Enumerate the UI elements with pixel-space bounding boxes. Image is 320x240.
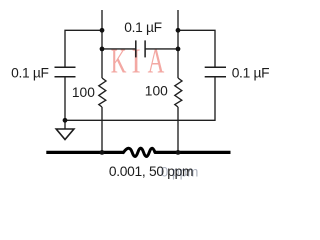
wire right branch below resistor [177, 107, 179, 152]
wire top right horizontal [178, 30, 215, 67]
shunt resistor 0.001 bus [46, 148, 230, 156]
capacitor C2 0.1uF middle [136, 40, 145, 57]
svg-text:0.1 µF: 0.1 µF [11, 66, 49, 81]
svg-text:100: 100 [72, 85, 95, 100]
node dot shunt right [176, 150, 181, 155]
node dot right mid [176, 47, 181, 52]
resistor R1 100 left [99, 78, 106, 107]
node dot left top [100, 28, 105, 33]
svg-text:0 ppm: 0 ppm [161, 165, 199, 180]
wire left input vertical [101, 10, 103, 78]
node dot ground [63, 118, 68, 123]
wire middle cap left lead [102, 48, 136, 50]
wire top left horizontal [65, 30, 102, 67]
node dot right top [176, 28, 181, 33]
wire middle cap right lead [145, 48, 178, 50]
node dot shunt left [100, 150, 105, 155]
wire left branch below resistor [101, 107, 103, 152]
node dot left mid [100, 47, 105, 52]
ground [56, 129, 74, 140]
capacitor C3 0.1uF right [205, 67, 226, 77]
watermark KIA [111, 42, 164, 81]
wire right cap down to ground rail [65, 77, 215, 121]
wire right input vertical [177, 10, 179, 78]
svg-text:100: 100 [145, 84, 168, 99]
wire left cap to ground node [64, 77, 66, 121]
ground stub [64, 120, 66, 129]
svg-text:0.1 µF: 0.1 µF [124, 20, 162, 35]
shunt zigzag [123, 148, 155, 156]
resistor R2 100 right [175, 78, 182, 107]
svg-text:0.1 µF: 0.1 µF [232, 66, 270, 81]
capacitor C1 0.1uF left [55, 67, 76, 77]
label shunt artifact tail [187, 169, 191, 176]
